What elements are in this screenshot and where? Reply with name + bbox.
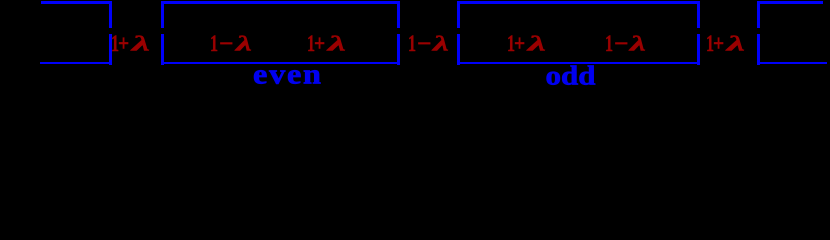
box right (partial, open right side): top edge — [757, 1, 823, 4]
box even: left vertical edge upper segment — [161, 1, 164, 28]
box left: right vertical edge upper segment — [109, 1, 112, 28]
box odd: left vertical edge lower segment — [457, 34, 460, 65]
box even: bottom edge — [161, 62, 401, 65]
label 1-lambda (inside even box, left half) — [210, 31, 212, 33]
box left (partial, open left side): top edge — [41, 1, 112, 4]
box even: top edge — [161, 1, 401, 4]
label 1+lambda (between odd box and right box) — [706, 31, 708, 33]
label 1+lambda (inside even box, right half) — [308, 31, 310, 33]
box odd: bottom edge — [457, 62, 700, 65]
box left: bottom edge — [40, 62, 112, 65]
label 1+lambda (between left box and even box) — [111, 31, 113, 33]
word even (below even box) — [253, 59, 323, 88]
box even: left vertical edge lower segment — [161, 34, 164, 65]
word odd (below odd box) — [546, 62, 596, 89]
box odd: right vertical edge upper segment — [697, 1, 700, 28]
box right: left vertical edge upper segment — [757, 1, 760, 28]
box odd: left vertical edge upper segment — [457, 1, 460, 28]
box odd: right vertical edge lower segment — [697, 34, 700, 65]
box right: left vertical edge lower segment — [757, 34, 760, 65]
label 1+lambda (inside odd box, left half) — [507, 31, 509, 33]
box right: bottom edge — [757, 62, 827, 65]
box odd: top edge — [457, 1, 700, 4]
label 1-lambda (inside odd box, right half) — [605, 31, 607, 33]
box even: right vertical edge lower segment — [397, 34, 400, 65]
box even: right vertical edge upper segment — [397, 1, 400, 28]
box left: right vertical edge lower segment — [109, 34, 112, 65]
label 1-lambda (between even box and odd box) — [408, 31, 410, 33]
